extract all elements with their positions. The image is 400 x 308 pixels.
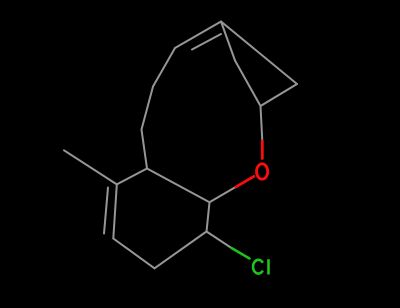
wire: T2 to apex xyxy=(221,22,297,85)
wire: apexB methyl xyxy=(64,150,117,184)
grey half of O-CH3 bond xyxy=(261,106,263,141)
chlorine Cl label xyxy=(253,259,268,274)
oxygen red bond halves xyxy=(236,141,262,187)
double bond tick bottom xyxy=(104,188,108,234)
wire: C_b to C_c xyxy=(155,232,207,269)
wire: left edge mid xyxy=(153,48,175,87)
double bond tick top xyxy=(192,34,221,50)
wire top ring: C_top to apex xyxy=(235,61,261,107)
wire bottom ring: C_a to C_b xyxy=(207,202,210,231)
wire: to C_d xyxy=(142,130,148,169)
wire: C_d to C_a xyxy=(147,169,210,203)
grey half of C_b-Cl bond xyxy=(207,232,232,249)
wire: L2 to apexB double bond main xyxy=(113,184,117,238)
grey half of O-C_a bond xyxy=(210,187,236,202)
wire: apexB to C_d xyxy=(117,169,147,185)
wire: left edge lower xyxy=(142,87,154,130)
oxygen O label xyxy=(257,164,268,179)
wire: apex down-left xyxy=(175,22,221,49)
wire: C_c to L2 xyxy=(113,239,154,269)
chlorine green bond half xyxy=(232,248,250,259)
wire: C_top to T2 xyxy=(261,84,298,106)
